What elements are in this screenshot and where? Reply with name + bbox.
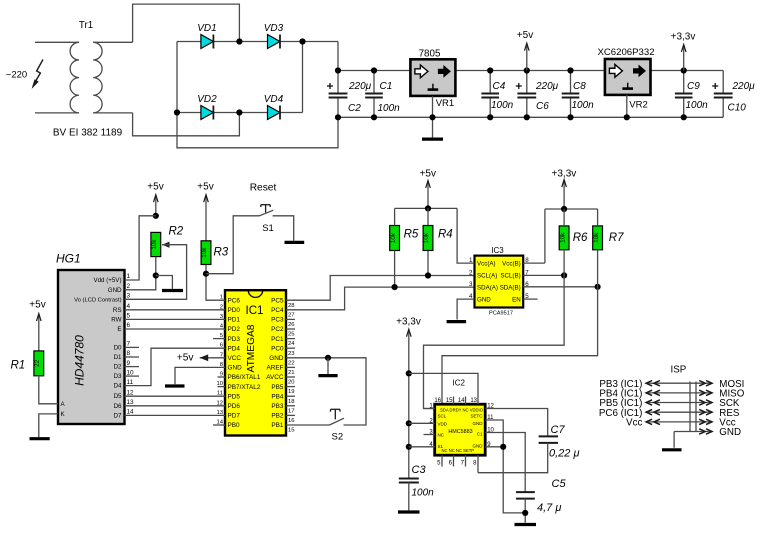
svg-text:AREF: AREF: [266, 365, 283, 372]
svg-text:14: 14: [458, 398, 465, 404]
svg-text:Tr1: Tr1: [79, 20, 93, 31]
svg-text:C6: C6: [536, 101, 549, 112]
svg-text:PC4: PC4: [271, 307, 284, 314]
svg-text:C4: C4: [493, 81, 506, 92]
svg-text:IC3: IC3: [491, 246, 504, 255]
svg-text:R1: R1: [11, 360, 26, 372]
svg-text:3: 3: [127, 293, 131, 300]
svg-text:HMC5883: HMC5883: [448, 429, 472, 435]
svg-text:EN: EN: [512, 296, 521, 303]
svg-text:19: 19: [288, 389, 295, 395]
svg-text:3: 3: [469, 281, 473, 288]
svg-text:VD4: VD4: [264, 94, 284, 105]
svg-text:+5v: +5v: [420, 169, 436, 180]
svg-text:24: 24: [288, 341, 295, 347]
svg-text:R2: R2: [169, 226, 184, 238]
svg-text:D7: D7: [114, 412, 122, 419]
svg-text:+5v: +5v: [197, 182, 213, 193]
svg-text:E: E: [117, 326, 121, 333]
svg-text:AVCC: AVCC: [266, 374, 284, 381]
svg-text:10k: 10k: [151, 239, 158, 250]
svg-text:PC0: PC0: [271, 345, 284, 352]
svg-text:R3: R3: [214, 247, 229, 259]
svg-text:15: 15: [446, 398, 453, 404]
svg-text:VR2: VR2: [629, 100, 647, 111]
svg-text:26: 26: [288, 322, 295, 328]
svg-text:C10: C10: [728, 103, 747, 114]
svg-text:PD3: PD3: [228, 336, 241, 343]
svg-text:10k: 10k: [390, 232, 397, 243]
svg-text:GND: GND: [108, 287, 122, 294]
svg-text:+3,3v: +3,3v: [396, 316, 421, 327]
svg-text:PB4: PB4: [271, 393, 284, 400]
svg-text:D0: D0: [114, 344, 122, 351]
svg-text:VD1: VD1: [197, 23, 216, 34]
svg-text:PD6: PD6: [228, 403, 241, 410]
svg-text:14: 14: [127, 409, 135, 416]
svg-text:23: 23: [288, 351, 295, 357]
svg-text:100n: 100n: [378, 103, 401, 114]
svg-text:16: 16: [288, 418, 295, 424]
svg-text:0,22 μ: 0,22 μ: [549, 448, 580, 460]
svg-text:Reset: Reset: [250, 183, 277, 194]
svg-text:VR1: VR1: [436, 98, 454, 109]
svg-text:+5v: +5v: [147, 182, 163, 193]
svg-text:SCL: SCL: [438, 414, 447, 419]
svg-text:C5: C5: [552, 478, 567, 490]
svg-text:17: 17: [288, 408, 295, 414]
svg-text:GND: GND: [473, 421, 484, 426]
svg-text:20: 20: [288, 380, 295, 386]
svg-text:+3,3v: +3,3v: [552, 169, 577, 180]
svg-text:10k: 10k: [593, 232, 600, 243]
svg-text:C1: C1: [477, 432, 483, 437]
svg-text:SCL(B): SCL(B): [500, 273, 520, 280]
svg-text:220μ: 220μ: [535, 81, 559, 92]
svg-text:Vcc(A): Vcc(A): [477, 260, 496, 267]
svg-text:PB7/XTAL2: PB7/XTAL2: [228, 384, 261, 391]
svg-text:10: 10: [127, 369, 135, 376]
svg-text:ATMEGA8: ATMEGA8: [246, 324, 257, 372]
svg-text:C3: C3: [412, 464, 427, 476]
svg-text:PB2: PB2: [271, 413, 284, 420]
svg-text:13: 13: [470, 398, 477, 404]
svg-text:C2: C2: [348, 103, 361, 114]
svg-text:D4: D4: [114, 383, 122, 390]
svg-text:D2: D2: [114, 364, 122, 371]
svg-text:Vdd (+5V): Vdd (+5V): [93, 277, 121, 284]
svg-text:4: 4: [127, 303, 131, 310]
svg-text:100n: 100n: [686, 100, 709, 111]
svg-text:+3,3v: +3,3v: [671, 31, 696, 42]
svg-text:9: 9: [127, 360, 131, 367]
svg-text:8: 8: [127, 350, 131, 357]
svg-text:RS: RS: [113, 307, 122, 314]
svg-text:PB3: PB3: [271, 403, 284, 410]
svg-text:PC1: PC1: [271, 336, 284, 343]
svg-text:10k: 10k: [201, 247, 208, 258]
svg-text:220μ: 220μ: [732, 81, 756, 92]
svg-text:27: 27: [288, 312, 295, 318]
svg-text:R4: R4: [438, 229, 453, 241]
svg-text:10k: 10k: [559, 232, 566, 243]
svg-text:HD44780: HD44780: [73, 335, 87, 386]
svg-text:PD0: PD0: [228, 307, 241, 314]
svg-text:PCA9517: PCA9517: [489, 311, 513, 317]
svg-text:PB0: PB0: [228, 422, 241, 429]
svg-text:5: 5: [127, 313, 131, 320]
svg-text:PB6/XTAL1: PB6/XTAL1: [228, 374, 261, 381]
svg-text:C1: C1: [380, 81, 393, 92]
svg-text:SCL(A): SCL(A): [477, 273, 497, 280]
svg-text:IC1: IC1: [246, 305, 264, 317]
svg-text:21: 21: [288, 370, 295, 376]
svg-text:GND: GND: [477, 296, 491, 303]
svg-text:2: 2: [127, 283, 131, 290]
svg-text:2: 2: [469, 270, 473, 277]
svg-text:D5: D5: [114, 393, 122, 400]
svg-text:RW: RW: [111, 316, 121, 323]
svg-text:Vcc: Vcc: [626, 417, 642, 428]
svg-text:7805: 7805: [419, 49, 441, 60]
svg-text:VCC: VCC: [228, 355, 242, 362]
svg-text:PC6: PC6: [228, 297, 241, 304]
svg-text:18: 18: [288, 399, 295, 405]
svg-text:HG1: HG1: [56, 252, 81, 266]
svg-text:SDA DRDY NC VDDIO: SDA DRDY NC VDDIO: [440, 408, 484, 413]
svg-text:16: 16: [434, 398, 441, 404]
svg-text:D3: D3: [114, 373, 122, 380]
svg-text:+5v: +5v: [177, 353, 195, 364]
svg-text:7: 7: [127, 341, 131, 348]
svg-text:15: 15: [288, 428, 295, 434]
svg-text:1: 1: [127, 273, 131, 280]
svg-text:GND: GND: [719, 427, 741, 438]
svg-text:SDA(B): SDA(B): [500, 284, 521, 291]
svg-text:22: 22: [288, 360, 295, 366]
svg-text:PD5: PD5: [228, 393, 241, 400]
svg-text:VDD: VDD: [438, 422, 448, 427]
svg-text:GND: GND: [228, 365, 243, 372]
svg-text:VD2: VD2: [197, 94, 217, 105]
svg-text:R5: R5: [404, 229, 419, 241]
svg-text:+5v: +5v: [517, 30, 533, 41]
svg-text:S1: S1: [262, 223, 274, 234]
svg-text:Vo (LCD Contrast): Vo (LCD Contrast): [74, 297, 121, 303]
svg-text:IC2: IC2: [452, 379, 465, 388]
svg-text:25: 25: [288, 332, 295, 338]
svg-text:PB1: PB1: [271, 422, 284, 429]
svg-text:C8: C8: [573, 81, 586, 92]
svg-text:+5v: +5v: [29, 300, 45, 311]
svg-text:100n: 100n: [412, 488, 435, 499]
svg-text:VD3: VD3: [264, 23, 284, 34]
svg-text:PD7: PD7: [228, 413, 241, 420]
svg-text:100n: 100n: [572, 100, 595, 111]
svg-text:SETC: SETC: [470, 414, 483, 419]
svg-text:220μ: 220μ: [348, 81, 372, 92]
svg-text:6: 6: [127, 322, 131, 329]
svg-text:R6: R6: [573, 232, 588, 244]
svg-text:100n: 100n: [491, 100, 514, 111]
svg-text:10k: 10k: [423, 232, 430, 243]
svg-text:~220: ~220: [6, 70, 27, 81]
svg-text:C9: C9: [687, 81, 700, 92]
svg-text:PD4: PD4: [228, 345, 241, 352]
svg-text:GND: GND: [473, 443, 484, 448]
svg-text:R7: R7: [609, 232, 624, 244]
svg-text:PD2: PD2: [228, 326, 241, 333]
svg-text:12: 12: [127, 389, 135, 396]
svg-text:SDA(A): SDA(A): [477, 284, 498, 291]
svg-text:NC: NC: [438, 433, 445, 438]
svg-text:Vcc(B): Vcc(B): [502, 260, 521, 267]
svg-text:4,7 μ: 4,7 μ: [537, 502, 561, 514]
svg-text:PC3: PC3: [271, 317, 284, 324]
svg-text:C7: C7: [551, 424, 566, 436]
svg-text:ISP: ISP: [671, 365, 687, 376]
svg-text:11: 11: [127, 379, 134, 386]
svg-text:NC NC NC SETP: NC NC NC SETP: [442, 448, 475, 453]
svg-text:22: 22: [34, 359, 41, 367]
svg-text:28: 28: [288, 303, 295, 309]
svg-text:13: 13: [127, 399, 135, 406]
svg-text:PD1: PD1: [228, 317, 241, 324]
svg-text:GND: GND: [269, 355, 284, 362]
svg-text:PB5: PB5: [271, 384, 284, 391]
svg-text:PC2: PC2: [271, 326, 284, 333]
svg-text:BV EI 382 1189: BV EI 382 1189: [53, 128, 123, 139]
svg-text:S2: S2: [331, 432, 343, 443]
svg-text:D6: D6: [114, 403, 122, 410]
svg-text:PC5: PC5: [271, 297, 284, 304]
svg-text:XC6206P332: XC6206P332: [597, 47, 654, 58]
svg-text:D1: D1: [114, 354, 122, 361]
